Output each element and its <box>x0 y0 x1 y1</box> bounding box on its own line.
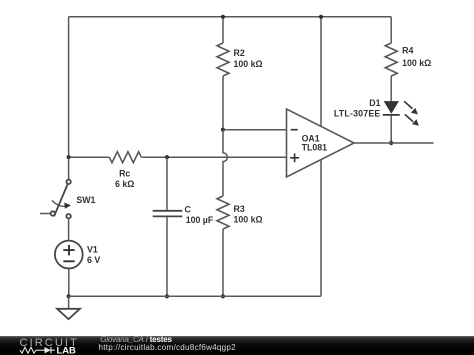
wire R2 top lead <box>222 17 224 43</box>
svg-text:C: C <box>185 204 192 214</box>
logo wire and diode doodle <box>36 349 55 351</box>
svg-text:6 V: 6 V <box>87 255 100 265</box>
svg-text:Rc: Rc <box>119 169 130 179</box>
wire capacitor bottom lead <box>166 217 168 296</box>
svg-text:R4: R4 <box>402 46 413 56</box>
svg-text:R2: R2 <box>234 48 245 58</box>
svg-text:100 µF: 100 µF <box>186 215 214 225</box>
footer credit text <box>100 336 171 344</box>
wire V1 to ground node <box>68 268 70 296</box>
svg-text:LAB: LAB <box>57 344 76 355</box>
logo resistor doodle <box>20 347 36 353</box>
wire top rail <box>69 16 392 18</box>
footer url text <box>99 344 236 352</box>
wire left rail <box>68 17 70 157</box>
svg-text:D1: D1 <box>369 98 380 108</box>
svg-text:LTL-307EE: LTL-307EE <box>334 108 381 118</box>
node output / LED <box>389 141 393 145</box>
node A (switch / middle wire junction) <box>67 155 71 159</box>
wire output <box>354 142 434 144</box>
resistor R4 <box>385 43 431 76</box>
svg-text:6 kΩ: 6 kΩ <box>115 179 134 189</box>
wire switch to V1 <box>68 218 70 240</box>
node top rail / V+ <box>319 15 323 19</box>
capacitor C <box>153 204 214 225</box>
LED D1 <box>334 98 419 126</box>
svg-text:R3: R3 <box>234 204 245 214</box>
wire R4 top lead <box>390 17 392 43</box>
switch SW1 <box>40 157 96 218</box>
footer bar <box>0 336 474 355</box>
resistor R3 <box>217 196 263 229</box>
wire middle (node A to op-amp + input, through Rc) <box>69 156 287 158</box>
node top rail / R2 <box>221 15 225 19</box>
node B (capacitor top junction) <box>165 155 169 159</box>
svg-text:100 kΩ: 100 kΩ <box>402 58 431 68</box>
svg-text:TL081: TL081 <box>302 143 328 153</box>
node capacitor / bottom rail <box>165 294 169 298</box>
node R3 / bottom rail <box>221 294 225 298</box>
svg-text:100 kΩ: 100 kΩ <box>234 59 263 69</box>
ground <box>57 296 80 319</box>
op-amp OA1 <box>287 109 355 177</box>
resistor R2 <box>217 43 263 76</box>
wire inverting input <box>223 129 287 131</box>
node inverting input junction <box>221 128 225 132</box>
voltage source V1 <box>55 241 100 269</box>
wire op-amp V- pin <box>320 160 322 297</box>
wire LED to output node <box>390 115 392 143</box>
svg-text:V1: V1 <box>87 245 98 255</box>
svg-text:100 kΩ: 100 kΩ <box>234 214 263 224</box>
wire R3 bottom lead <box>222 229 224 296</box>
node ground junction <box>67 294 71 298</box>
wire R2 bottom to inverting node <box>222 76 224 130</box>
CircuitLab logo <box>0 336 90 355</box>
wire vertical with hop over middle wire <box>223 130 227 196</box>
wire op-amp V+ pin <box>320 17 322 127</box>
resistor Rc <box>109 152 141 190</box>
wire capacitor top lead <box>166 157 168 210</box>
wire R4 to LED <box>390 76 392 101</box>
svg-text:SW1: SW1 <box>76 195 95 205</box>
wire bottom rail <box>69 295 321 297</box>
